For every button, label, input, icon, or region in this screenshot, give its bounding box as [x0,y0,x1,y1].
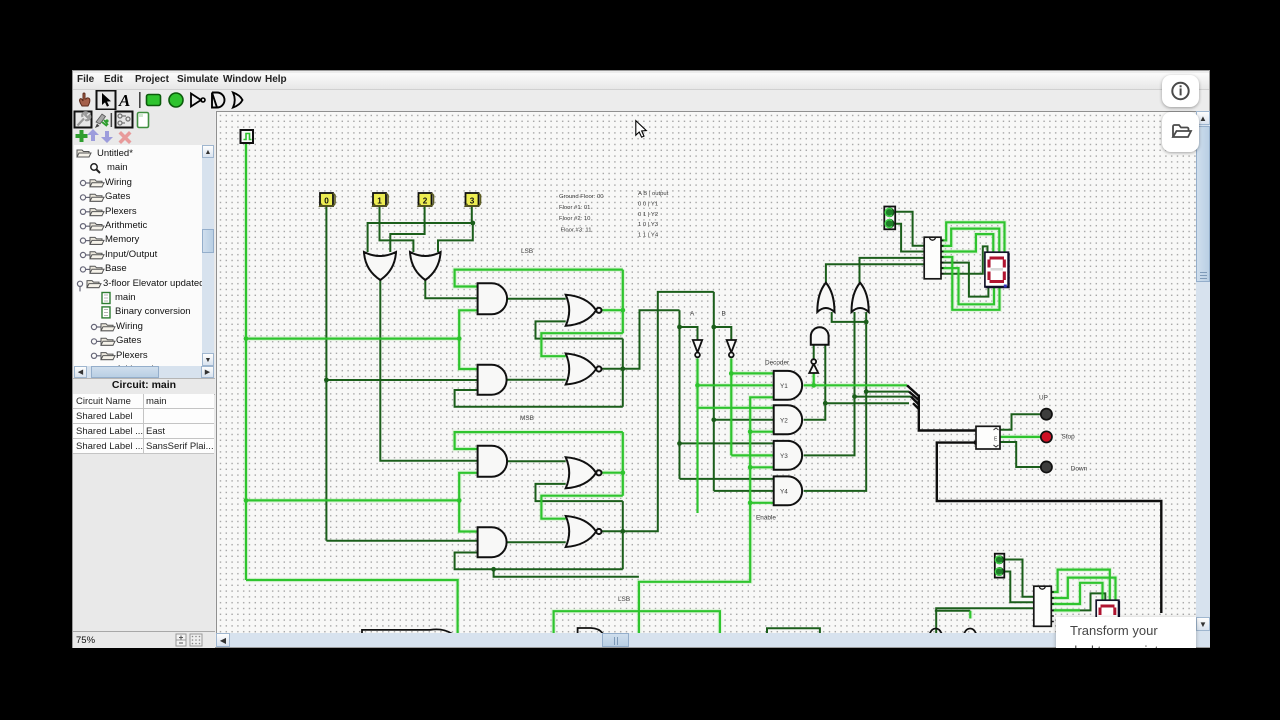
subcircuit U11 Binary conversion 2 [1034,586,1054,626]
and gate Y1 [774,371,802,400]
wire A rail [680,310,774,479]
wrench tool (pressed) [75,112,92,128]
svg-text:A B | output: A B | output [638,191,669,197]
wire Y4 output net [804,312,909,491]
button 3 [466,193,481,206]
svg-text:Decoder: Decoder [765,360,790,367]
svg-text:Y1: Y1 [780,383,788,390]
junction [748,429,753,434]
splitter S1 fan [907,385,919,409]
wire xor1 output to MSB [380,280,477,461]
partial or gate at bottom edge 2 [964,629,976,635]
junction [620,470,625,475]
junction [620,308,625,313]
nor gate LSB N1 [566,295,596,326]
junction [470,221,475,226]
partial or gate at bottom edge 1 [930,629,942,635]
output pin icon [169,93,183,107]
junction [974,440,979,445]
junction [244,336,249,341]
canvas vertical scrollbar [1196,111,1210,647]
not gate A inverter [693,340,702,353]
wire glow layer [246,143,1116,633]
add/up/down/remove row [76,130,88,142]
pin UP indicator [1041,409,1052,420]
partial register at bottom edge [767,628,820,633]
bus wire to controller [919,395,976,431]
wire xor2 output to LSB [425,280,477,298]
svg-text:1 1 | Y4: 1 1 | Y4 [638,233,659,239]
wire not-A output column [698,359,774,514]
wire display1 dark seg [941,246,988,273]
svg-text:0: 0 [324,197,329,206]
not gate icon [191,94,201,107]
wire bottom feed to subckt2 [935,608,1034,633]
junction [852,394,857,399]
and gate LSB A1 [478,283,508,314]
junction [457,498,462,503]
input pin icon [147,95,161,106]
svg-text:Enable: Enable [756,515,776,522]
junction [729,371,734,376]
junction [711,417,716,422]
nor gate MSB N3 [566,457,596,488]
wire LSB latch Qbar net [455,310,680,407]
svg-text:LSB: LSB [521,248,533,255]
LED pair L3 L4 [995,554,1005,578]
wire MSB and2 out [507,541,566,543]
pin STOP indicator [1041,431,1052,442]
and gate MSB A3 [478,446,508,477]
LED pair L1 L2 [884,207,895,230]
wire button 1 net [380,206,414,252]
svg-text:Floor #2: 10: Floor #2: 10 [559,216,591,222]
svg-text:0 0 | Y1: 0 0 | Y1 [638,202,658,208]
and gate U6 (points up) [811,327,829,344]
appearance doc icon [138,113,149,128]
wire or-up1 out to subckt [826,264,924,282]
pin DOWN indicator [1041,461,1052,472]
wire led1a to subckt [895,212,924,246]
junction [748,465,753,470]
wire down indicator net [1000,442,1041,467]
svg-text:Floor #1: 01: Floor #1: 01 [559,205,590,211]
junction [711,325,716,330]
junction [864,320,869,325]
wire button 0 net [326,206,477,541]
junction [695,383,700,388]
and gate MSB A4 [478,527,507,557]
wire button 3 net [368,206,473,252]
junction [823,401,828,406]
wire or-up2 out to subckt [860,258,925,283]
subcircuit U9 Binary conversion [924,237,943,279]
appearance edit icon [96,114,106,124]
svg-text:B: B [722,311,726,318]
junction [620,529,625,534]
svg-text:Down: Down [1071,466,1088,473]
junction [748,500,753,505]
wire MSB latch Q net [455,432,623,519]
svg-text:Floor #3: 11: Floor #3: 11 [561,228,592,234]
clock CLK1 [241,130,254,143]
svg-text:MSB: MSB [520,415,534,422]
wire LSB latch Q net [455,270,623,357]
wire display2 segment nets [1051,570,1115,611]
7-segment display D1 [985,252,1009,287]
and gate icon [212,93,225,108]
wire LSB and1 out [507,298,566,300]
svg-text:A: A [118,91,130,110]
junction [620,366,625,371]
wire not-B output column [731,359,773,456]
svg-text:1: 1 [377,197,382,206]
junction [811,383,816,388]
canvas horizontal scrollbar [216,633,1196,647]
wire display1 dark seg 2 [941,263,988,297]
wire not-up output [813,345,815,361]
subcircuit U10 elevator controller [976,426,1000,449]
wire Y1 output net [804,373,907,386]
svg-text:3: 3 [470,197,475,206]
tree vertical scrollbar [202,145,214,366]
select tool (pressed) [97,91,116,110]
junction [244,498,249,503]
or gate U8 (points up) [852,283,869,312]
wire enable net [639,397,774,633]
svg-text:0 1 | Y2: 0 1 | Y2 [638,212,658,218]
junction [457,336,462,341]
partial and gate at bottom edge [578,628,603,634]
junction [677,441,682,446]
svg-text:1 0 | Y3: 1 0 | Y3 [638,222,659,228]
button 0 [320,193,335,206]
text floor legend [559,194,604,234]
and gate Y4 [774,476,802,505]
svg-text:Y2: Y2 [780,417,788,424]
wire up indicator net [1000,414,1041,430]
wire Y3 output net [804,312,911,455]
button 2 [419,193,434,206]
wire display2 dark seg [1051,593,1105,610]
and gate LSB A2 [478,365,507,395]
wire B rail [714,292,774,491]
svg-text:Ground Floor: 00: Ground Floor: 00 [559,194,604,200]
wire display1 segment nets [941,222,1005,309]
7-segment display D2 [1096,600,1119,633]
bus feedback loop [937,443,1162,613]
button 1 [373,193,388,206]
wire MSB latch Qbar net [455,292,714,577]
subcircuit icon (pressed) [116,112,133,128]
or gate U7 (points up) [817,283,834,312]
wire button 2 net [390,206,424,252]
xor gate X1 (inputs from buttons) [364,252,396,280]
mouse cursor [636,121,647,138]
svg-text:UP: UP [1039,395,1048,402]
not gate B inverter [727,340,736,353]
hand tool icon [80,93,90,106]
svg-text:Y4: Y4 [780,488,788,495]
junction [677,325,682,330]
wire led1b to subckt [895,224,924,252]
svg-text:2: 2 [423,197,428,206]
wire led2b to subckt2 [1004,572,1034,603]
wire clock rail net [246,143,478,633]
not gate U5 (Y1 inverter, points up) [809,364,818,373]
junction [864,389,869,394]
junction [491,567,496,572]
and gate Y3 [774,441,802,470]
wire MSB and1 out [507,460,566,462]
nor gate MSB N4 [566,516,596,547]
xor gate X2 (inputs from buttons) [410,252,441,280]
svg-text:LSB: LSB [618,596,630,603]
junction [324,378,329,383]
wire LSB and2 out [507,379,566,381]
svg-text:Stop: Stop [1062,434,1076,441]
wire Y2 output net [804,345,909,420]
wire stop indicator net [1000,436,1041,438]
or gate icon [233,93,243,108]
svg-text:Y3: Y3 [780,453,788,460]
nor gate LSB N2 [566,354,596,385]
partial and gate at bottom edge 2 [362,629,453,634]
and gate Y2 [774,405,802,434]
wire led2a to subckt2 [1004,560,1034,597]
svg-text:A: A [690,311,695,318]
text truth table [638,191,669,239]
tree horizontal scrollbar [74,366,214,378]
wire bottom LSB bright net [554,611,971,633]
